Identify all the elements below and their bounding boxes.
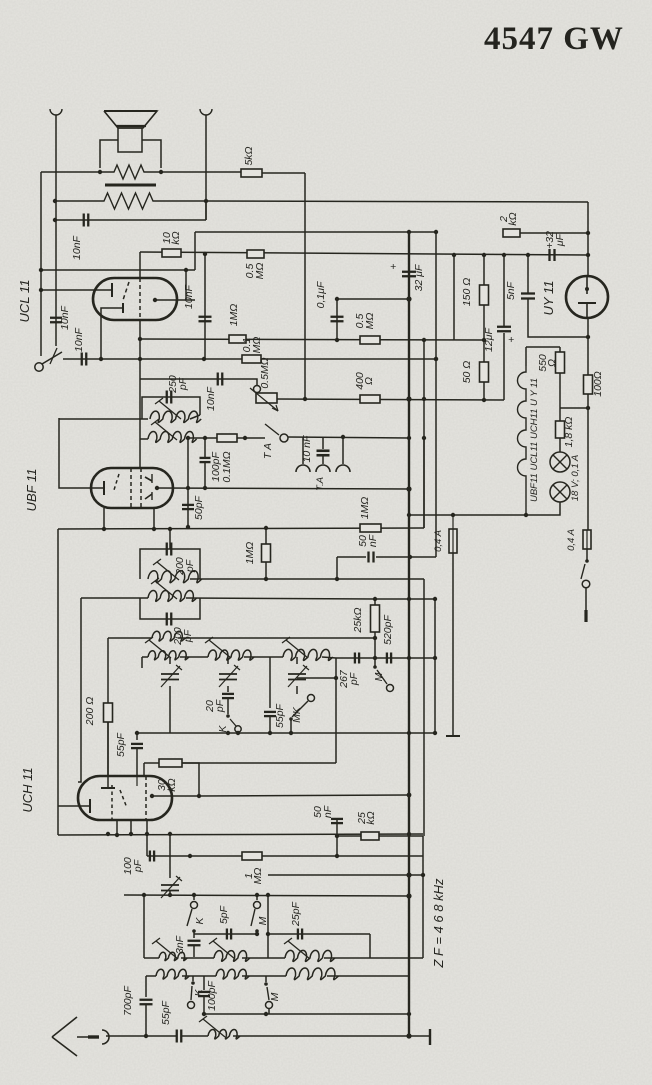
switch TA bbox=[265, 424, 279, 435]
inductor osc1b bbox=[156, 969, 189, 979]
fuse 0.4A left bbox=[452, 515, 454, 529]
svg-text:25kΩ: 25kΩ bbox=[352, 608, 364, 634]
inductor osc1a bbox=[159, 952, 187, 960]
capacitor 10nF on x56 bbox=[50, 317, 62, 319]
svg-text:MΩ: MΩ bbox=[251, 337, 263, 354]
resistor 0.5MOhm screen bbox=[360, 336, 380, 344]
svg-text:kΩ: kΩ bbox=[507, 212, 519, 225]
svg-text:5nF: 5nF bbox=[505, 281, 517, 300]
svg-text:200 Ω: 200 Ω bbox=[84, 697, 96, 726]
wire y835 bbox=[58, 834, 423, 835]
svg-text:Ω: Ω bbox=[546, 359, 558, 367]
tube UBF11 bbox=[91, 468, 173, 508]
wire x454 bbox=[453, 255, 455, 340]
wire y934 25pF bbox=[267, 895, 269, 958]
svg-text:1MΩ: 1MΩ bbox=[359, 497, 371, 520]
node x206-y201 bbox=[204, 199, 208, 203]
capacitor 50nF-2 bbox=[331, 818, 343, 820]
capacitor 50pF bbox=[187, 438, 189, 488]
svg-text:520pF: 520pF bbox=[382, 615, 394, 645]
svg-text:kΩ: kΩ bbox=[166, 778, 178, 791]
capacitor 3nF bbox=[193, 931, 195, 938]
resistor 1.8kOhm bbox=[556, 421, 565, 438]
UCL11 cathode bbox=[122, 303, 124, 313]
resistor 30kOhm bbox=[143, 763, 145, 776]
svg-text:MK: MK bbox=[291, 706, 303, 723]
wire x435 bbox=[434, 599, 436, 658]
resistor 0.1MOhm anode bbox=[217, 434, 237, 442]
wire y488 anode bbox=[157, 488, 409, 489]
potentiometer 0.5MOhm volume bbox=[256, 393, 277, 403]
wire y529 bbox=[58, 528, 424, 529]
capacitor 10nF x205 bbox=[199, 316, 212, 318]
resistor 0.1MOhm bbox=[242, 355, 261, 363]
wire terminal-right vertical x206 bbox=[205, 115, 207, 220]
resistor 1MOhm vertical bbox=[265, 528, 267, 544]
trimmer band2 bbox=[227, 657, 229, 664]
svg-text:150 Ω: 150 Ω bbox=[461, 278, 473, 306]
svg-text:pF: pF bbox=[177, 377, 189, 391]
resistor 50Ohm bbox=[480, 362, 489, 382]
svg-text:10nF: 10nF bbox=[183, 284, 195, 309]
wire y856 bbox=[147, 855, 423, 857]
svg-text:Ω: Ω bbox=[363, 377, 375, 385]
resistor 400Ohm bbox=[360, 395, 380, 403]
wire y1014 bbox=[204, 1013, 409, 1015]
wire left rail x41 bbox=[40, 172, 42, 356]
capacitor 25pF bbox=[297, 929, 299, 940]
terminal bar left mains bbox=[446, 735, 460, 737]
wire y934 5pF bbox=[194, 933, 257, 935]
UCL11 internal dashes bbox=[123, 282, 129, 300]
speaker terminal right bbox=[200, 109, 212, 115]
svg-text:pF: pF bbox=[348, 672, 360, 686]
wire y796 anode bbox=[199, 795, 409, 796]
svg-text:55pF: 55pF bbox=[115, 732, 127, 757]
UCL11 bottom pins bbox=[139, 320, 141, 439]
capacitor 20pF bbox=[222, 693, 234, 695]
switch K osc2 bbox=[192, 976, 194, 981]
wire vertical x305 bbox=[304, 173, 306, 398]
lamp scale 2 bbox=[550, 482, 570, 502]
svg-text:+: + bbox=[390, 261, 396, 273]
svg-text:0.1MΩ: 0.1MΩ bbox=[221, 451, 233, 482]
capacitor 200pF top bbox=[166, 543, 168, 556]
svg-text:Z F = 4 6 8 kHz: Z F = 4 6 8 kHz bbox=[431, 878, 446, 968]
wire y255 dots bbox=[482, 253, 486, 257]
wire x436 bbox=[435, 232, 437, 557]
loudspeaker cone bbox=[104, 111, 157, 128]
wire y515 bbox=[409, 502, 560, 515]
resistor 0.5MOhm bbox=[247, 250, 264, 258]
svg-text:UCL 11: UCL 11 bbox=[17, 280, 32, 323]
wire y875 bbox=[268, 874, 423, 876]
magnet gap bar bbox=[105, 184, 156, 187]
inductor osc3a bbox=[285, 950, 335, 961]
UCL11 grid pin left bbox=[41, 289, 112, 291]
UCH11 bottom pins bbox=[116, 820, 118, 835]
wire TA right bbox=[288, 437, 409, 438]
wire y233 right bbox=[520, 232, 588, 234]
UCH11 triode anode bbox=[150, 794, 154, 798]
capacitor 0.1uF bbox=[336, 299, 338, 340]
svg-text:0,1μF: 0,1μF bbox=[315, 281, 327, 308]
wire y172 bbox=[41, 171, 100, 173]
svg-text:M: M bbox=[373, 672, 385, 681]
inductor osc2a bbox=[214, 951, 250, 962]
svg-text:UY 11: UY 11 bbox=[541, 281, 556, 316]
wire y339 bbox=[140, 339, 484, 340]
switch M osc2 bbox=[265, 976, 267, 982]
capacitor 10nF TA bbox=[322, 437, 324, 449]
resistor 1MOhm-3 bbox=[262, 544, 271, 562]
resistor 200Ohm bbox=[104, 703, 113, 722]
capacitor 100pF osc grid bbox=[149, 851, 151, 862]
UY11 anode bbox=[586, 277, 588, 294]
svg-text:25pF: 25pF bbox=[290, 901, 302, 927]
capacitor 10nF speaker bbox=[83, 214, 85, 227]
switch M right bbox=[373, 665, 377, 669]
UCH11 left pin bbox=[58, 805, 90, 807]
svg-text:kΩ: kΩ bbox=[365, 811, 377, 824]
svg-text:1MΩ: 1MΩ bbox=[228, 304, 240, 327]
svg-text:nF: nF bbox=[367, 534, 379, 547]
inductor osc top bbox=[152, 631, 185, 641]
resistor 150Ohm bbox=[480, 285, 489, 305]
trimmer band1 bbox=[141, 657, 143, 668]
transformer3 top coil bbox=[108, 637, 152, 639]
wire terminal-left vertical x56 bbox=[55, 115, 57, 346]
oscillator coil row2 bbox=[146, 975, 156, 977]
svg-text:5pF: 5pF bbox=[218, 905, 230, 924]
resistor 1MOhm horizontal bbox=[360, 524, 381, 532]
wire x195 drop bbox=[194, 232, 196, 270]
inductor IF2 secondary bbox=[148, 591, 197, 602]
svg-text:32 μF: 32 μF bbox=[413, 264, 425, 291]
loudspeaker magnet bbox=[118, 128, 142, 152]
svg-text:μF: μF bbox=[554, 233, 566, 247]
svg-text:M: M bbox=[269, 992, 281, 1001]
inductor band3 bbox=[283, 649, 333, 660]
switch MK bbox=[308, 695, 315, 702]
resistor 150Ohm bbox=[483, 255, 485, 285]
svg-text:5kΩ: 5kΩ bbox=[243, 146, 255, 165]
capacitor 100pF osc2 bbox=[203, 976, 205, 990]
antenna plug pin bbox=[88, 1035, 99, 1038]
capacitor 55pF band bbox=[269, 657, 271, 708]
trimmer osc1 bbox=[169, 834, 171, 878]
capacitor 520pF body bbox=[386, 653, 388, 664]
UCL11 top pin bbox=[139, 252, 141, 278]
wire rail x81 bbox=[78, 598, 81, 782]
svg-text:50pF: 50pF bbox=[193, 495, 205, 520]
svg-text:18 V; 0,1 A: 18 V; 0,1 A bbox=[570, 455, 581, 501]
node x41-y270 bbox=[39, 268, 43, 272]
trimmer band3 bbox=[296, 657, 298, 664]
svg-text:10nF: 10nF bbox=[205, 386, 217, 411]
svg-text:pF: pF bbox=[182, 629, 194, 643]
inductor osc3b bbox=[286, 968, 338, 980]
resistor 5kOhm bbox=[241, 169, 262, 177]
wire y579 bbox=[190, 578, 424, 580]
wire y419 UBF grid bbox=[59, 418, 104, 488]
svg-text:UCH 11: UCH 11 bbox=[20, 767, 35, 812]
inductor IF1 primary bbox=[150, 411, 201, 422]
UY11 cathode bbox=[578, 302, 596, 304]
svg-text:pF: pF bbox=[132, 859, 144, 873]
wire x108 below bbox=[107, 787, 109, 789]
capacitor 55pF antenna bbox=[176, 1030, 178, 1043]
capacitor 200pF bottom bbox=[166, 613, 168, 626]
lamp scale 1 bbox=[550, 452, 570, 472]
wire y599 right bbox=[375, 598, 435, 600]
wire right rail x588 bbox=[587, 202, 589, 276]
svg-text:12μF: 12μF bbox=[483, 327, 495, 351]
field coil zigzag bbox=[55, 193, 206, 209]
tube UCH11 bbox=[78, 776, 172, 820]
wire y254 bbox=[140, 252, 588, 255]
wire x108 bbox=[107, 638, 109, 703]
oscillator coil row1 bbox=[143, 895, 145, 958]
wire y678 bbox=[297, 677, 336, 679]
svg-text:MΩ: MΩ bbox=[364, 313, 376, 330]
jack TA 3 bbox=[342, 437, 344, 464]
wire y733 bbox=[170, 732, 435, 734]
svg-text:4547 GW: 4547 GW bbox=[484, 21, 624, 57]
inductor band1 bbox=[148, 651, 189, 660]
transformer2 cap loop top bbox=[169, 529, 171, 549]
tube UCL11 bbox=[93, 278, 177, 320]
capacitor 32uF right bbox=[548, 249, 550, 261]
svg-text:10 nF: 10 nF bbox=[301, 435, 313, 462]
svg-text:UBF11 UCL11 UCH11 U Y 11: UBF11 UCL11 UCH11 U Y 11 bbox=[529, 378, 540, 502]
capacitor 12uF bbox=[503, 255, 505, 326]
node speaker frame left bbox=[98, 170, 102, 174]
resistor 550Ohm bbox=[556, 352, 565, 373]
resistor hum-bucking zigzag bbox=[100, 165, 161, 179]
wire y220 bbox=[55, 219, 206, 221]
resistor 25kOhm-2 bbox=[361, 832, 379, 840]
svg-text:100pF: 100pF bbox=[206, 981, 218, 1011]
UBF11 diode plates bbox=[145, 477, 152, 481]
transformer2 cap loop bottom bbox=[140, 598, 200, 619]
resistor 10kOhm bbox=[162, 249, 181, 257]
wire left rail x58 bbox=[57, 529, 59, 835]
wire x424 down bbox=[423, 579, 425, 836]
svg-text:55pF: 55pF bbox=[274, 703, 286, 728]
svg-text:10nF: 10nF bbox=[59, 305, 71, 330]
mains switch lever bbox=[35, 363, 43, 371]
UBF11 top pin bbox=[139, 439, 141, 468]
UBF11 bottom pins bbox=[103, 508, 105, 529]
svg-text:55pF: 55pF bbox=[160, 1000, 172, 1025]
svg-text:100Ω: 100Ω bbox=[592, 371, 604, 397]
capacitor 50nF bbox=[367, 552, 369, 563]
wire main HT bus x409 bbox=[408, 233, 410, 1037]
inductor IF2 primary bbox=[148, 571, 202, 583]
UCH11 grid pins top bars bbox=[107, 776, 109, 788]
wire x424 bbox=[423, 340, 425, 528]
transformer2 secondary bbox=[81, 597, 148, 599]
wire y438 bbox=[186, 437, 265, 439]
node x56-y201 bbox=[53, 199, 57, 203]
switch M osc bbox=[256, 895, 258, 900]
svg-text:pF: pF bbox=[214, 699, 226, 713]
wire y270 bbox=[41, 269, 195, 271]
svg-text:nF: nF bbox=[322, 805, 334, 818]
UBF11 grid bar bbox=[103, 481, 105, 495]
UCL11 anode pin bbox=[153, 298, 157, 302]
capacitor 5pF bbox=[226, 929, 228, 940]
tuning coil row bbox=[142, 656, 148, 658]
svg-text:MΩ: MΩ bbox=[252, 868, 264, 885]
wire y173 to corner bbox=[262, 172, 305, 174]
capacitor 5nF bbox=[527, 255, 529, 294]
resistor 2kOhm bbox=[503, 229, 520, 237]
UBF11 anode pin bbox=[155, 486, 159, 490]
svg-text:10nF: 10nF bbox=[73, 327, 85, 352]
jack TA 1 bbox=[302, 437, 304, 464]
wire y895 bbox=[124, 895, 409, 896]
pot terminal bbox=[254, 386, 261, 393]
capacitor 55pF grid UCH bbox=[137, 732, 170, 734]
jack TA 2 bbox=[316, 465, 330, 472]
wire x424 up bbox=[423, 438, 425, 528]
terminal stub right bbox=[584, 610, 587, 622]
svg-text:50 Ω: 50 Ω bbox=[461, 361, 473, 384]
inductor antenna bbox=[208, 1029, 240, 1038]
antenna bbox=[52, 1017, 77, 1037]
UBF11 internal dashes bbox=[114, 474, 119, 490]
svg-text:1,8 kΩ: 1,8 kΩ bbox=[563, 417, 575, 448]
resistor 1MOhm grid bbox=[229, 335, 246, 343]
heater chain bbox=[518, 366, 527, 515]
tube UY11 bbox=[566, 276, 608, 318]
capacitor 100pF bbox=[204, 438, 206, 459]
inductor IF1 secondary bbox=[148, 432, 197, 443]
UCH11 internal dashes bbox=[111, 785, 113, 820]
wire y408 bbox=[560, 407, 588, 409]
svg-text:0,4 A: 0,4 A bbox=[566, 529, 577, 551]
wire y359 start bbox=[63, 358, 436, 360]
transformer1 secondary bbox=[140, 438, 148, 440]
chassis terminal bbox=[429, 1029, 431, 1045]
wire y658 bbox=[336, 657, 435, 659]
resistor 1MOhm osc bbox=[242, 852, 262, 860]
capacitor 50nF bbox=[336, 557, 338, 579]
switch K osc bbox=[193, 895, 195, 900]
resistor 100Ohm bbox=[584, 375, 593, 394]
capacitor 10nF coupling bbox=[217, 373, 219, 386]
svg-text:700pF: 700pF bbox=[122, 986, 134, 1016]
50nF 25k row bbox=[336, 820, 338, 856]
fuse 0.4A right bbox=[583, 530, 591, 549]
svg-text:1MΩ: 1MΩ bbox=[244, 542, 256, 565]
inductor osc2b bbox=[216, 969, 249, 979]
switch K band2 bbox=[227, 698, 229, 714]
wire y638 bbox=[178, 637, 375, 639]
inductor band2 bbox=[208, 650, 254, 660]
svg-text:3nF: 3nF bbox=[174, 935, 186, 954]
svg-text:+: + bbox=[508, 334, 514, 346]
svg-text:UBF 11: UBF 11 bbox=[24, 469, 39, 512]
wire y201 bus to right bbox=[206, 201, 588, 202]
svg-text:M: M bbox=[257, 916, 269, 925]
capacitor 700pF bbox=[145, 976, 147, 997]
wire y379 branch bbox=[140, 379, 257, 385]
svg-text:0,4 A: 0,4 A bbox=[433, 530, 444, 552]
wire y232 bbox=[195, 231, 436, 233]
capacitor 250pF bbox=[166, 391, 168, 404]
mains switch right bbox=[586, 549, 588, 560]
wire y299 bbox=[337, 298, 409, 300]
svg-text:10nF: 10nF bbox=[71, 235, 83, 260]
speaker frame wires bbox=[100, 140, 118, 168]
wire 550 top stub bbox=[559, 347, 561, 352]
svg-text:kΩ: kΩ bbox=[170, 231, 182, 244]
resistor 25kOhm bbox=[371, 605, 380, 632]
wire y347 bbox=[526, 346, 560, 348]
svg-text:T A: T A bbox=[262, 443, 274, 459]
wire x205 drop bbox=[204, 254, 206, 359]
wire y1036 bbox=[106, 1035, 176, 1037]
svg-text:K: K bbox=[194, 917, 206, 925]
speaker terminal left bbox=[50, 109, 62, 115]
node speaker frame right bbox=[159, 170, 163, 174]
wire x186 drop bbox=[185, 270, 187, 300]
capacitor 10nF y359 bbox=[81, 353, 83, 366]
transformer1 cap loop bbox=[142, 397, 200, 419]
capacitor 267pF bbox=[354, 653, 356, 664]
wire y399 bbox=[276, 399, 504, 400]
wire y763 from 30k bbox=[182, 762, 336, 764]
svg-text:MΩ: MΩ bbox=[254, 263, 266, 280]
